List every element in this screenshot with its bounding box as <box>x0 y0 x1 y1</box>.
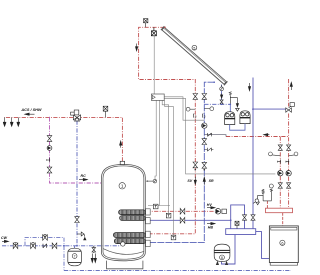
tank outer shell <box>102 164 146 260</box>
union on recirc <box>47 158 50 162</box>
tank inner shell <box>103 166 144 259</box>
wire: boiler flow red pipe upper coil to pump HV <box>146 210 215 212</box>
ACS arrow left <box>25 113 35 115</box>
wire: solar flow red pipe collector to tank lower coil <box>139 27 196 234</box>
valve on recirc bottom <box>47 167 52 173</box>
boiler pump right <box>286 171 291 176</box>
collector connection dot red <box>164 27 166 29</box>
air vent on header <box>235 221 239 229</box>
tank label circle 1 <box>119 183 125 189</box>
wire: cold water bypass top branch <box>25 238 64 246</box>
wire: upper thermostat wire <box>162 100 168 213</box>
check valve on branch <box>208 133 212 136</box>
tank temperature sensor circle <box>146 179 157 183</box>
svg-text:8: 8 <box>221 256 223 260</box>
svg-text:7: 7 <box>74 255 76 259</box>
collector label circle <box>192 45 197 50</box>
CW valve 2 <box>31 243 36 249</box>
valve on upper coil red <box>180 208 185 214</box>
safety valve on riser <box>77 232 86 240</box>
small thermometer on big blue <box>253 199 259 204</box>
tank cold water inlet fitting circle <box>121 242 125 246</box>
union on solar flow <box>193 114 194 118</box>
heat exchanger coil upper <box>119 210 146 221</box>
valve on recirc top <box>47 136 52 142</box>
SV flow arrow down <box>194 177 196 185</box>
coil flange upper <box>146 209 151 247</box>
collector bottom sensor circle <box>220 85 224 91</box>
wire: collector drain column <box>221 85 223 105</box>
boiler label circle <box>280 240 285 245</box>
wire: tank top thermostat line <box>148 205 170 207</box>
node vessel group tee <box>230 104 232 106</box>
svg-text:2: 2 <box>195 115 197 119</box>
svg-text:CW: CW <box>1 236 8 240</box>
thermometer left <box>269 152 281 156</box>
SR flow arrow up <box>203 177 205 185</box>
ACS taps <box>3 117 20 126</box>
node cold water branch tee <box>63 245 65 247</box>
safety valve of solar group <box>229 92 239 112</box>
wire: upper coil blue return to header <box>146 219 231 221</box>
pressure gauge solar return <box>204 107 213 111</box>
boiler pump left <box>278 171 283 176</box>
wire: controller to boiler pump <box>164 98 275 173</box>
valve on mixing riser <box>75 217 80 223</box>
flow arrow down on heating return <box>248 83 250 91</box>
valve lower on solar flow <box>193 162 198 168</box>
CW check valve <box>43 244 47 248</box>
motor valve on heating flow <box>286 103 295 113</box>
svg-text:SR: SR <box>209 179 214 183</box>
flow arrow up ACS <box>120 141 122 148</box>
wire: boiler return from header <box>256 232 270 259</box>
discharge funnel <box>258 195 263 201</box>
CW valve 1 <box>13 243 18 249</box>
tank plinth <box>107 261 143 269</box>
solar collector panel <box>162 27 227 84</box>
tank top fitting <box>120 161 124 164</box>
wire: tank sensor wire <box>155 100 156 179</box>
node collector return junction <box>213 81 215 83</box>
heat exchanger coil lower <box>113 233 145 244</box>
svg-text:6: 6 <box>281 242 283 246</box>
wire: drain column at tank <box>93 246 95 253</box>
recirc pump <box>47 146 52 151</box>
safety group manifold <box>263 200 271 202</box>
wire: solar blue horizontal to expansion vessels <box>204 103 230 105</box>
thermostat box lower coil <box>171 235 176 240</box>
flow arrow up on heating flow <box>290 82 292 90</box>
flow arrow left on red horizontal <box>264 134 270 136</box>
union on solar return <box>202 114 203 118</box>
pressure gauge solar flow <box>186 107 195 111</box>
wire: riser to mixing valve <box>76 121 78 246</box>
valves boiler pair bottom <box>278 183 291 188</box>
flow arrow down on solar flow <box>135 44 137 51</box>
wire: heating red horizontal <box>226 136 289 138</box>
wire: blue bypass loop over <box>231 205 245 229</box>
wire: heating flow red vertical right <box>288 79 290 208</box>
valve on upper coil blue <box>180 217 185 223</box>
low loss header <box>226 229 256 235</box>
svg-text:RC: RC <box>81 174 87 178</box>
svg-text:HB: HB <box>208 225 214 229</box>
air vent on ACS <box>103 106 108 117</box>
safety valve spring <box>262 189 264 194</box>
HV arrow right <box>207 207 215 209</box>
wire: controller to solar pump <box>164 97 204 120</box>
wire: bottom blue distribution line <box>64 269 291 271</box>
unions boiler pair <box>278 160 281 164</box>
drain thermometer at collector <box>220 94 223 104</box>
node sensor tap solar return <box>204 169 206 171</box>
CW valve 3 <box>52 243 57 249</box>
svg-text:1: 1 <box>121 184 124 189</box>
vessel U pipe <box>230 124 245 131</box>
boiler body <box>269 226 298 265</box>
node coil return tee <box>230 219 232 221</box>
expansion vessel solar 1 <box>225 104 235 124</box>
valve on solar return lower <box>202 139 207 145</box>
node heating return tee <box>252 108 254 110</box>
RC arrow right <box>79 178 87 180</box>
wire: CW expansion vessel stub <box>74 246 76 249</box>
svg-text:5: 5 <box>193 46 195 50</box>
wire: tank top thermostat wire <box>158 100 160 205</box>
valve on bypass right leg <box>242 215 246 220</box>
thermostat box upper coil <box>166 213 171 218</box>
tank drain valve column <box>91 248 96 263</box>
wire: ACS hot water red pipe tank top to taps <box>81 117 123 161</box>
node recirculation tee <box>49 117 50 118</box>
safety group gauge <box>269 184 273 188</box>
collector sensor box <box>151 27 156 36</box>
tank dished bottom <box>103 249 144 255</box>
wire: recirculation magenta pipe <box>50 117 102 183</box>
wire: second boiler red vertical <box>279 137 281 209</box>
valves on boiler pair top <box>278 145 291 150</box>
svg-text:SV: SV <box>187 179 192 183</box>
expansion vessel solar 2 <box>240 111 250 124</box>
HB arrow right <box>207 222 215 224</box>
valve on solar return at station bottom <box>202 162 207 168</box>
mixing valve <box>71 110 81 121</box>
wire: collector sensor wire <box>153 36 155 94</box>
node drain column tee <box>221 104 223 106</box>
CW arrow right <box>2 240 9 242</box>
air vent at collector <box>144 19 148 28</box>
wire: cold water down to bottom main <box>63 246 65 271</box>
wire: blue stub to motor valve <box>253 108 288 110</box>
valve on solar return top <box>202 94 207 100</box>
wire: red drop from red manifold to boiler <box>282 213 284 226</box>
bypass meter valve <box>43 234 48 240</box>
wire: red drop from safety group to red manifold <box>266 201 268 208</box>
svg-text:ACS / SHW: ACS / SHW <box>20 108 41 112</box>
check valve branch lower <box>204 148 213 151</box>
thermometer right <box>289 152 298 156</box>
wire: cold water main <box>2 245 121 247</box>
thermostat box tank top <box>153 204 158 209</box>
wire: lower thermostat wire <box>165 100 174 235</box>
svg-text:2: 2 <box>204 115 206 119</box>
wire: heating return blue big vertical <box>252 78 254 229</box>
node cold water riser tee <box>76 245 78 247</box>
red manifold box <box>266 208 293 213</box>
valve on solar flow line <box>193 94 198 100</box>
wire: solar return blue pipe collector to lower coil bottom <box>146 82 214 242</box>
wire: check valve branch solar station <box>204 135 226 137</box>
wire: heating expansion vessel pipe <box>222 235 236 265</box>
node sensor tap solar flow <box>195 169 197 171</box>
solar pump <box>202 123 207 128</box>
valve on big blue at header <box>251 215 255 220</box>
CW expansion vessel <box>68 248 82 266</box>
